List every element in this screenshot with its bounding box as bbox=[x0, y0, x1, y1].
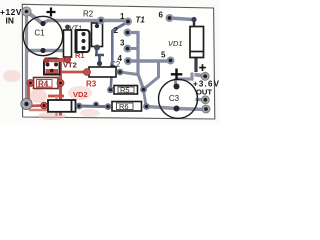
resistor R2 (vertical body) bbox=[92, 23, 103, 51]
transistor VT2 bbox=[44, 59, 60, 75]
svg-text:R6: R6 bbox=[119, 102, 129, 111]
svg-text:3: 3 bbox=[120, 39, 125, 48]
wire : T1 pin6 to VD1 top bbox=[170, 18, 194, 20]
wire : red R1 bottom rail bbox=[45, 58, 70, 62]
node : R1 bottom red pad (over) bbox=[65, 57, 71, 63]
wire : pin1 diagonal to C2 bbox=[113, 23, 128, 31]
board outline bbox=[22, 4, 215, 119]
wire : red vertical VT2/R4 right bbox=[59, 60, 62, 116]
svg-text:C3: C3 bbox=[169, 94, 180, 103]
pin 5 bbox=[167, 57, 175, 65]
wire : VD1 lead to +out pad bbox=[195, 75, 206, 77]
resistor R6 bbox=[105, 102, 150, 112]
svg-text:2: 2 bbox=[114, 26, 119, 35]
pin 4 bbox=[124, 57, 132, 65]
node : +3.6V output pad bbox=[201, 72, 209, 80]
wire : R5 right pad down to R6 right pad bbox=[144, 90, 147, 106]
wire : branch down to R5 right bbox=[145, 61, 159, 89]
svg-text:IN: IN bbox=[6, 16, 14, 26]
wire : +out rail to C3 plus bbox=[176, 73, 193, 80]
resistor R3 bbox=[84, 67, 124, 77]
wire : C3 minus to out pad bbox=[196, 98, 206, 102]
node : output minus pad bbox=[201, 96, 209, 104]
wire : R1 bottom lead bbox=[67, 57, 69, 60]
svg-text:VD1: VD1 bbox=[168, 39, 183, 48]
wire : T1 pin2 loop right bbox=[128, 33, 144, 89]
node : output plus mark bbox=[199, 64, 206, 71]
wire : red vertical near VD2 bbox=[55, 96, 57, 116]
svg-text:R2: R2 bbox=[83, 10, 94, 19]
value label R4 bbox=[37, 80, 53, 88]
svg-text:R5: R5 bbox=[120, 86, 130, 95]
wire : VD1 cathode lead down bbox=[194, 58, 197, 73]
wire : red trace over VT2 top bbox=[45, 59, 70, 63]
wire : red horizontal above VD2 bbox=[48, 95, 64, 98]
svg-text:6: 6 bbox=[159, 11, 164, 20]
svg-text:1: 1 bbox=[120, 12, 125, 21]
pin 3 bbox=[124, 45, 132, 53]
wire : top rail C1+ to R2 to T1 pin1 bbox=[43, 21, 127, 24]
capacitor C2 (small) bbox=[95, 48, 104, 66]
wire : C2 to R3 right region bbox=[111, 30, 113, 87]
node : R2 top pad on rail bbox=[97, 17, 105, 25]
wire : C3 plus pad stem bbox=[174, 79, 177, 88]
resistor R4 bbox=[27, 78, 64, 89]
wire : VD2 right pad to R6 left (gray) bbox=[79, 105, 108, 109]
wire : T1 pin4 to pin5 rail bbox=[128, 59, 170, 62]
node : red pad left of VT2 top (over) bbox=[44, 58, 50, 64]
transistor VT1 bbox=[76, 30, 90, 52]
capacitor C1 bbox=[23, 16, 62, 55]
resistor R1 (vertical body) bbox=[64, 25, 72, 63]
diode VD1 bbox=[190, 17, 204, 58]
svg-text:VT2: VT2 bbox=[63, 61, 77, 70]
wire : bottom rail to C3 minus bbox=[147, 107, 207, 110]
resistor R5 bbox=[107, 86, 147, 95]
node : red pad left of VT2 top bbox=[44, 57, 50, 63]
wire : left rail vertical (input + down left edge) bbox=[25, 12, 28, 105]
svg-text:R4: R4 bbox=[38, 80, 49, 89]
node : GND input pad (bottom left) bbox=[21, 98, 32, 109]
wire : C1 minus horizontal bbox=[27, 49, 64, 52]
pink smudges (bottom copper bleed) bbox=[3, 70, 100, 120]
node : +12V input pad bbox=[22, 7, 31, 16]
pin 2 bbox=[124, 29, 132, 37]
node : output minus pad on rail bbox=[202, 105, 210, 113]
wire : R3 right pad toward R5 right bbox=[120, 72, 138, 75]
svg-text:VT1: VT1 bbox=[69, 26, 82, 33]
capacitor C3 bbox=[159, 79, 198, 118]
wire : red gnd pad to VD2 left bbox=[28, 104, 44, 107]
wire : red bottom horizontal bbox=[29, 109, 58, 112]
diode VD2 bbox=[41, 100, 83, 112]
pin 1 bbox=[124, 18, 132, 26]
svg-text:4: 4 bbox=[118, 54, 123, 63]
svg-text:T1: T1 bbox=[136, 16, 146, 25]
node : pad on VD2-R6 trace bbox=[93, 102, 99, 108]
node : C1 plus mark bbox=[47, 8, 56, 17]
wire : input + to C1 plus pad bbox=[27, 12, 43, 24]
svg-text:R3: R3 bbox=[86, 80, 97, 89]
wire : red to R3 left bbox=[61, 71, 87, 74]
wire : T1 pin3 stub bbox=[128, 47, 139, 50]
svg-text:5: 5 bbox=[161, 51, 166, 60]
svg-text:VD2: VD2 bbox=[73, 90, 88, 99]
wire : red R4 left down to gnd pad bbox=[27, 85, 30, 102]
svg-text:C1: C1 bbox=[34, 29, 45, 38]
node : C3 plus mark bbox=[171, 69, 183, 81]
svg-text:OUT: OUT bbox=[196, 88, 212, 97]
pin 6 bbox=[166, 14, 174, 22]
